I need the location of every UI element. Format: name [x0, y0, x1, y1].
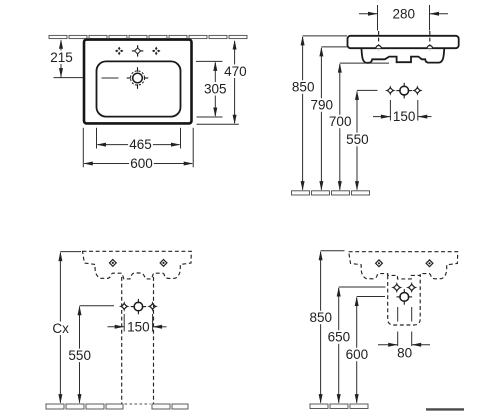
svg-text:305: 305	[204, 81, 227, 96]
faucet hole right (plan)	[152, 47, 161, 56]
fixing hole right (siphon-cover view)	[406, 282, 417, 293]
svg-text:850: 850	[310, 310, 333, 325]
svg-text:280: 280	[393, 6, 416, 21]
faucet hole centre (plan)	[132, 45, 143, 56]
tap hole left dashed (pedestal view)	[109, 260, 116, 267]
dimension 550 (pedestal view)	[67, 306, 114, 404]
svg-text:465: 465	[129, 137, 152, 152]
tap hole centre lines (front)	[379, 31, 430, 51]
dimension 600 (siphon-cover view)	[345, 297, 386, 404]
svg-text:550: 550	[68, 348, 91, 363]
dimension Cx	[52, 252, 81, 404]
pedestal left edge dashed	[121, 277, 123, 404]
dimension 550 (front)	[345, 90, 378, 190]
tap hole right (front)	[427, 46, 432, 49]
basin silhouette dashed (pedestal view)	[83, 251, 192, 279]
dimension 850 (front)	[291, 36, 347, 191]
drain outlet (pedestal view)	[131, 299, 146, 314]
wall fixing hole left (front)	[385, 85, 396, 96]
svg-text:790: 790	[311, 98, 334, 113]
tap hole right dashed (siphon-cover view)	[426, 260, 433, 267]
dimension 650	[327, 287, 386, 404]
svg-text:650: 650	[328, 330, 351, 345]
svg-text:80: 80	[397, 345, 412, 360]
faucet hole left (plan)	[115, 47, 124, 56]
fixing hole left (pedestal view)	[119, 301, 130, 312]
dimension 150 (front)	[373, 100, 432, 124]
svg-text:215: 215	[50, 50, 73, 65]
dimension 80	[378, 307, 430, 360]
dimension 280	[359, 5, 448, 31]
wall section (plan view)	[49, 35, 247, 38]
dimension 600	[83, 128, 193, 171]
washbasin outer rim (plan)	[84, 40, 192, 124]
svg-text:550: 550	[346, 132, 369, 147]
svg-text:150: 150	[393, 109, 416, 124]
fixing hole left (siphon-cover view)	[391, 282, 402, 293]
floor section (pedestal view)	[46, 404, 188, 409]
svg-text:700: 700	[329, 114, 352, 129]
pedestal right edge dashed	[153, 277, 155, 404]
fixing hole right (pedestal view)	[147, 301, 158, 312]
svg-text:470: 470	[224, 64, 247, 79]
basin silhouette dashed (siphon-cover view)	[349, 252, 458, 279]
drain trap outlet (front)	[396, 83, 412, 99]
floor section (siphon-cover view)	[310, 404, 368, 409]
basin rim slab (front)	[348, 36, 459, 48]
dimension 700 (front)	[328, 63, 389, 191]
dimension 790 (front)	[309, 47, 347, 191]
drain centre level line (plan)	[102, 77, 119, 79]
svg-text:850: 850	[292, 80, 315, 95]
svg-text:600: 600	[130, 156, 153, 171]
tap hole left (front)	[376, 46, 381, 49]
dimension 150 (pedestal view)	[108, 314, 167, 334]
dimension 465	[97, 128, 181, 152]
svg-text:150: 150	[127, 319, 150, 334]
floor section (front view)	[292, 191, 370, 195]
scale bar	[426, 408, 464, 410]
wall fixing hole right (front)	[412, 85, 423, 96]
dimension 305	[196, 61, 228, 117]
drain outlet (plan)	[127, 67, 149, 89]
basin underside profile (front)	[361, 48, 444, 63]
tap hole left dashed (siphon-cover view)	[376, 260, 383, 267]
dimension 215	[49, 39, 83, 77]
dimension 470	[197, 40, 248, 124]
siphon cover dashed outline	[388, 275, 421, 325]
inner bowl (plan)	[97, 61, 181, 116]
tap hole right dashed (pedestal view)	[160, 260, 167, 267]
drain outlet (siphon-cover view)	[397, 289, 413, 305]
svg-text:600: 600	[346, 347, 369, 362]
svg-text:Cx: Cx	[52, 321, 69, 336]
dimension 850 (siphon-cover view)	[308, 251, 344, 404]
